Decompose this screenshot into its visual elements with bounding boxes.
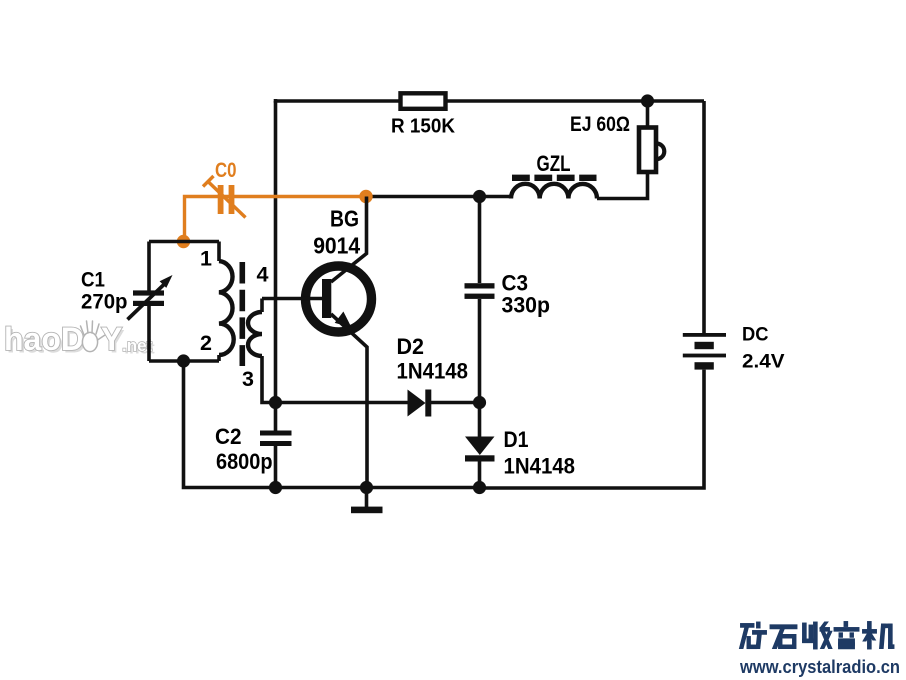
capacitor C1 270p (variable) [147, 242, 151, 292]
svg-text:GZL: GZL [537, 151, 571, 176]
svg-text:3: 3 [242, 367, 254, 391]
wire: EJ top lead [646, 101, 650, 128]
svg-text:1N4148: 1N4148 [397, 359, 469, 384]
svg-text:haoD: haoD [4, 321, 84, 357]
emitter arrow [335, 312, 352, 328]
svg-text:1: 1 [200, 247, 212, 271]
node: orange junction collector [359, 190, 372, 203]
wire: bias rail (left vertical x=275.5) [274, 101, 278, 403]
wire: right rail lower + bottom right [480, 370, 705, 488]
diode D2 1N4148 [276, 401, 408, 405]
svg-text:1N4148: 1N4148 [504, 453, 576, 478]
svg-text:DC: DC [742, 324, 769, 346]
svg-text:www.crystalradio.cn: www.crystalradio.cn [739, 656, 900, 677]
wire: EJ bottom lead [597, 172, 648, 199]
node: junction mid (C3 tap) [473, 190, 486, 203]
svg-text:C0: C0 [215, 159, 237, 182]
wire: top rail right segment [446, 99, 704, 103]
svg-text:270p: 270p [81, 291, 128, 314]
node: orange junction on loop [177, 235, 190, 248]
svg-text:C1: C1 [81, 269, 105, 292]
node: junction D2 left [269, 396, 282, 409]
wire: emitter lead [331, 314, 367, 488]
node: junction C2 bottom [269, 481, 282, 494]
svg-text:2: 2 [200, 331, 212, 355]
inductor GZL [511, 184, 597, 199]
inductor L secondary (winding 4-3) [260, 299, 264, 313]
svg-text:Y: Y [101, 321, 122, 357]
svg-text:9014: 9014 [313, 233, 360, 259]
wire: top rail left segment [276, 99, 401, 101]
wire: right rail [702, 101, 706, 334]
svg-text:4: 4 [257, 263, 269, 287]
svg-text:C2: C2 [215, 424, 242, 449]
watermark haoDIY.net [4, 321, 155, 360]
svg-text:D2: D2 [397, 334, 425, 359]
ground [365, 488, 369, 508]
capacitor C3 330p [478, 197, 482, 284]
wire: base lead [262, 297, 322, 301]
svg-text:330p: 330p [502, 293, 551, 318]
svg-text:BG: BG [330, 206, 359, 232]
transistor Q1 BG 9014 (circle + base bar) [306, 266, 372, 332]
capacitor C2 6800p [260, 431, 292, 436]
logo 矿石收音机 [739, 622, 894, 650]
svg-text:6800p: 6800p [216, 449, 273, 474]
inductor L primary (winding 1-2) [217, 242, 221, 262]
node: junction top (EJ tap) [641, 94, 654, 107]
svg-text:D1: D1 [504, 427, 529, 452]
transformer core [240, 262, 246, 366]
battery DC 2.4V [683, 333, 726, 337]
diode D1 1N4148 [478, 403, 482, 437]
resistor R 150K [401, 93, 446, 109]
wire: tank loop top [149, 240, 219, 244]
svg-text:EJ 60Ω: EJ 60Ω [570, 113, 630, 136]
svg-text:2.4V: 2.4V [742, 351, 785, 373]
wire: tank bottom to ground rail [184, 361, 480, 488]
wire: mid rail (collector node to coil) [366, 197, 511, 199]
node: junction emitter bottom [360, 481, 373, 494]
earphone EJ 60Ω [639, 128, 656, 173]
wire: collector lead [331, 197, 367, 283]
node: junction tank bottom [177, 354, 190, 367]
wire: tank loop bottom [149, 359, 219, 363]
node: junction bottom right [473, 481, 486, 494]
capacitor C0 (orange trimmer) [185, 176, 367, 241]
node: junction D1 top [473, 396, 486, 409]
svg-text:R 150K: R 150K [391, 116, 456, 138]
